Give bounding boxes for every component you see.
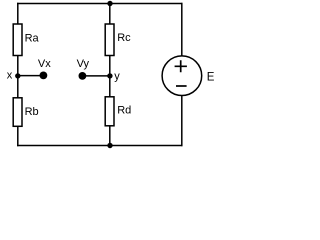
svg-text:Ra: Ra	[25, 33, 40, 45]
resistor Rc	[105, 24, 114, 56]
voltage source E circle	[162, 56, 202, 96]
wire top	[17, 3, 183, 5]
wire left	[17, 3, 19, 146]
voltage source minus sign	[176, 85, 187, 87]
probe dot Vx	[40, 72, 48, 80]
resistor Rd	[105, 97, 114, 126]
svg-text:x: x	[7, 70, 13, 82]
svg-text:Rc: Rc	[117, 32, 131, 44]
resistor Rb	[13, 98, 22, 127]
svg-text:Vy: Vy	[77, 58, 90, 70]
svg-text:Rb: Rb	[25, 106, 39, 118]
wire right lower	[181, 95, 183, 147]
wire stub x to Vx	[18, 75, 43, 77]
svg-text:Vx: Vx	[38, 58, 51, 70]
wire right upper	[181, 3, 183, 57]
svg-text:y: y	[114, 71, 120, 83]
wire stub Vy to y	[83, 75, 109, 77]
wire bottom	[17, 145, 183, 147]
svg-text:E: E	[207, 71, 215, 83]
junction bottom middle	[107, 143, 112, 148]
node x junction	[15, 73, 20, 78]
probe dot Vy	[79, 72, 87, 80]
wire middle	[109, 4, 111, 146]
junction top middle	[107, 1, 112, 6]
node y junction	[107, 73, 112, 78]
resistor Ra	[13, 24, 22, 56]
voltage source plus sign	[175, 60, 187, 72]
svg-text:Rd: Rd	[117, 104, 131, 116]
